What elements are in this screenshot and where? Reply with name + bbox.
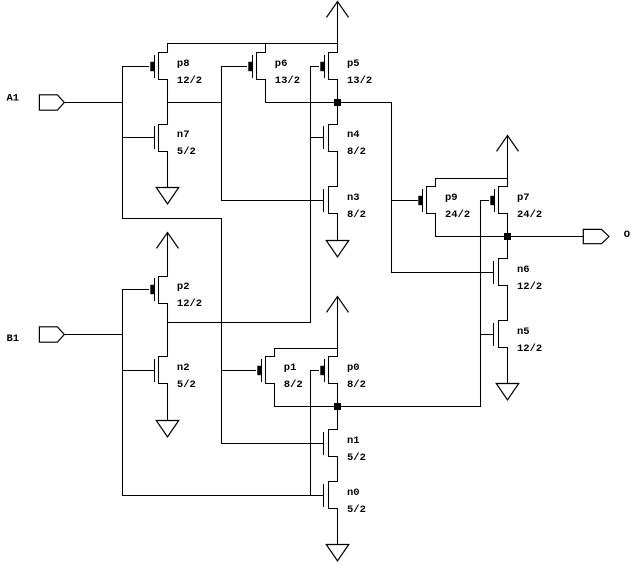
svg-text:A1: A1 (7, 92, 20, 104)
svg-text:n0: n0 (347, 487, 360, 499)
svg-text:p8: p8 (177, 58, 190, 70)
svg-text:n4: n4 (347, 129, 360, 141)
svg-text:8/2: 8/2 (284, 379, 303, 391)
svg-text:12/2: 12/2 (177, 298, 202, 310)
svg-text:5/2: 5/2 (347, 452, 366, 464)
svg-text:n1: n1 (347, 435, 360, 447)
svg-text:p1: p1 (284, 362, 297, 374)
svg-text:n7: n7 (177, 129, 190, 141)
svg-text:p7: p7 (517, 192, 530, 204)
svg-text:5/2: 5/2 (347, 504, 366, 516)
svg-text:8/2: 8/2 (347, 209, 366, 221)
svg-text:8/2: 8/2 (347, 379, 366, 391)
svg-text:5/2: 5/2 (177, 379, 196, 391)
svg-text:p6: p6 (275, 58, 288, 70)
svg-text:B1: B1 (7, 333, 20, 345)
svg-text:p9: p9 (445, 192, 458, 204)
svg-text:12/2: 12/2 (177, 75, 202, 87)
svg-text:24/2: 24/2 (445, 209, 470, 221)
svg-text:13/2: 13/2 (347, 75, 372, 87)
svg-text:p5: p5 (347, 58, 360, 70)
svg-text:n6: n6 (517, 264, 530, 276)
svg-text:p2: p2 (177, 281, 190, 293)
svg-text:n2: n2 (177, 362, 190, 374)
svg-text:n5: n5 (517, 326, 530, 338)
svg-text:5/2: 5/2 (177, 146, 196, 158)
svg-text:12/2: 12/2 (517, 281, 542, 293)
svg-text:n3: n3 (347, 192, 360, 204)
svg-text:O: O (624, 229, 630, 241)
svg-text:13/2: 13/2 (275, 75, 300, 87)
svg-text:24/2: 24/2 (517, 209, 542, 221)
svg-text:8/2: 8/2 (347, 146, 366, 158)
svg-text:12/2: 12/2 (517, 343, 542, 355)
svg-text:p0: p0 (347, 362, 360, 374)
